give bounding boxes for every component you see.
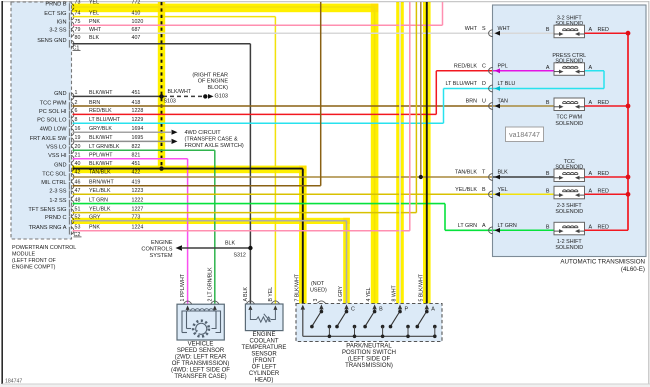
svg-text:A: A — [589, 224, 593, 230]
wire TFT SENS SIG YEL/BLK 1227 to top edge — [73, 212, 417, 214]
junction S312 — [248, 246, 252, 250]
PNP switch B — [372, 304, 376, 309]
svg-text:79: 79 — [75, 27, 81, 33]
svg-text:LT GRN: LT GRN — [458, 223, 477, 229]
arrow FRT AXLE SW — [172, 139, 178, 144]
svg-text:LT BLU/WHT: LT BLU/WHT — [89, 117, 121, 123]
svg-text:6 GRY: 6 GRY — [338, 285, 344, 301]
svg-text:POSITION SWITCH: POSITION SWITCH — [342, 350, 396, 356]
svg-text:B: B — [546, 171, 550, 177]
PRESS CTRL SOLENOID at y=70.8 — [554, 63, 585, 76]
top border — [2, 1, 649, 3]
svg-text:PPL: PPL — [498, 64, 508, 70]
svg-text:21: 21 — [75, 153, 81, 159]
svg-text:B: B — [546, 188, 550, 194]
wire 4WD LOW GRY/BLK 1694 stub — [73, 131, 172, 133]
svg-text:OF ENGINE: OF ENGINE — [198, 79, 229, 85]
red bus junction TCC PWM — [626, 104, 631, 109]
svg-text:1-2 SHIFT: 1-2 SHIFT — [557, 239, 583, 245]
svg-text:SYSTEM: SYSTEM — [149, 253, 172, 259]
svg-text:2: 2 — [75, 100, 78, 106]
wire 3-2 SS WHT 687 to transmission S — [73, 32, 494, 34]
VSS pickup coil symbol — [187, 311, 217, 329]
svg-text:RED: RED — [598, 100, 609, 106]
svg-text:LT BLU/WHT: LT BLU/WHT — [445, 81, 477, 87]
svg-text:418: 418 — [132, 100, 141, 106]
wire TCC SOL TAN/BLK 422 to transmission T — [73, 176, 494, 178]
svg-text:TRANSFER CASE): TRANSFER CASE) — [174, 374, 226, 380]
svg-text:TRANSMISSION): TRANSMISSION) — [345, 363, 393, 369]
svg-text:RED: RED — [598, 171, 609, 177]
wire SENS GND BLK 407 to S312 and ECT pin A — [73, 43, 251, 45]
svg-text:75: 75 — [75, 19, 81, 25]
1-2 SHIFT SOLENOID at y=230.3 — [554, 222, 585, 235]
wire 422 branch to top edge — [420, 2, 422, 177]
right border — [648, 1, 650, 387]
svg-text:SOLENOID: SOLENOID — [555, 209, 583, 215]
svg-text:D: D — [482, 81, 486, 87]
wire IGN PNK 1020 from top edge — [73, 24, 443, 26]
svg-text:PNK: PNK — [89, 225, 100, 231]
svg-text:B: B — [546, 100, 550, 106]
wire VSS LO LT GRN/BLK 822 to VSS pin2 — [73, 149, 215, 151]
svg-text:B: B — [482, 187, 486, 193]
PNP pin7 internal — [301, 305, 305, 310]
svg-text:1 PPL/WHT: 1 PPL/WHT — [180, 273, 186, 301]
svg-text:BLK: BLK — [225, 240, 235, 246]
highlight S103 dashed vertical — [158, 2, 165, 169]
highlight vertical pin8 WHT — [396, 2, 404, 304]
svg-text:PNK: PNK — [89, 19, 100, 25]
svg-text:GND: GND — [54, 91, 66, 97]
svg-text:A: A — [589, 171, 593, 177]
svg-text:GND: GND — [54, 162, 66, 168]
svg-text:FRT AXLE SW: FRT AXLE SW — [30, 136, 68, 142]
PNP bus wire — [303, 335, 437, 337]
svg-text:S103: S103 — [164, 99, 176, 105]
PNP switch C — [344, 304, 348, 309]
svg-text:LT GRN: LT GRN — [89, 197, 108, 203]
svg-text:BLK: BLK — [498, 170, 509, 176]
3-2 SHIFT SOLENOID at y=33.2 — [554, 25, 585, 38]
wire PC SOL HI RED/BLK 1228 to transmission C — [73, 113, 437, 115]
svg-text:PRND C: PRND C — [45, 215, 66, 221]
junction 451 to GND row40 — [159, 166, 163, 170]
svg-text:7 BLK/WHT: 7 BLK/WHT — [294, 273, 300, 301]
red feed bus — [627, 33, 629, 230]
svg-text:80: 80 — [75, 35, 81, 41]
wire PNP pin8 WHT from top edge — [399, 2, 401, 304]
svg-text:3-2 SS: 3-2 SS — [49, 28, 66, 34]
svg-text:BRN/WHT: BRN/WHT — [89, 180, 114, 186]
highlight vertical pin6 GRY — [343, 218, 350, 304]
svg-text:1: 1 — [75, 90, 78, 96]
svg-text:MODULE: MODULE — [12, 252, 35, 258]
svg-text:SOLENOID: SOLENOID — [555, 245, 583, 251]
svg-text:1223: 1223 — [132, 188, 144, 194]
svg-text:BLK/WHT: BLK/WHT — [168, 89, 192, 95]
svg-text:(TRANSFER CASE &: (TRANSFER CASE & — [185, 137, 239, 143]
red bus junction 3-2 corner — [626, 31, 631, 36]
svg-text:TAN/BLK: TAN/BLK — [455, 170, 477, 176]
svg-text:A: A — [589, 27, 593, 33]
svg-text:SENSOR: SENSOR — [251, 352, 277, 358]
svg-text:VSS LO: VSS LO — [46, 145, 67, 151]
highlight PRND B row0 — [72, 4, 378, 13]
svg-text:LT BLU: LT BLU — [498, 81, 516, 87]
engine coolant temp sensor box — [245, 304, 283, 331]
svg-text:C: C — [482, 64, 486, 70]
svg-text:8 WHT: 8 WHT — [392, 285, 398, 302]
svg-text:6: 6 — [75, 108, 78, 114]
svg-text:51: 51 — [75, 206, 81, 212]
svg-text:(LEFT SIDE OF: (LEFT SIDE OF — [348, 357, 391, 363]
wire BLK S312 branch — [181, 247, 250, 249]
automatic transmission panel — [493, 5, 647, 257]
svg-text:53: 53 — [75, 225, 81, 231]
svg-text:1695: 1695 — [132, 135, 144, 141]
svg-text:184747: 184747 — [5, 379, 22, 385]
svg-text:1694: 1694 — [132, 126, 144, 132]
svg-text:S312: S312 — [234, 253, 246, 259]
svg-text:(4WD: LEFT SIDE OF: (4WD: LEFT SIDE OF — [171, 368, 230, 374]
svg-text:B YEL: B YEL — [268, 287, 274, 302]
svg-text:(4L60-E): (4L60-E) — [621, 266, 645, 273]
svg-text:WHT: WHT — [498, 26, 511, 32]
svg-text:2-3 SHIFT: 2-3 SHIFT — [557, 203, 583, 209]
ground arrow to G103 — [208, 94, 214, 99]
PNP switch A — [425, 304, 429, 309]
svg-text:(RIGHT REAR: (RIGHT REAR — [192, 72, 228, 78]
wire MIL CTRL BRN/WHT 419 to top edge — [73, 185, 321, 187]
svg-text:19: 19 — [75, 135, 81, 141]
svg-text:TCC SOL: TCC SOL — [42, 171, 66, 177]
svg-text:A: A — [589, 100, 593, 106]
svg-text:B: B — [546, 224, 550, 230]
ECT connector arcs — [246, 301, 254, 304]
svg-text:687: 687 — [132, 27, 141, 33]
svg-text:CYLINDER: CYLINDER — [249, 371, 280, 377]
svg-text:WHT: WHT — [465, 26, 478, 32]
left border — [1, 1, 3, 384]
svg-text:AUTOMATIC TRANSMISSION: AUTOMATIC TRANSMISSION — [560, 258, 645, 265]
svg-text:1229: 1229 — [132, 117, 144, 123]
svg-text:BRN: BRN — [89, 100, 100, 106]
svg-text:20: 20 — [75, 144, 81, 150]
svg-text:G103: G103 — [215, 94, 228, 100]
svg-text:16: 16 — [75, 126, 81, 132]
svg-text:MIL CTRL: MIL CTRL — [41, 180, 66, 186]
svg-text:TEMPERATURE: TEMPERATURE — [242, 345, 287, 351]
svg-text:PC SOL HI: PC SOL HI — [39, 109, 67, 115]
svg-text:SPEED SENSOR: SPEED SENSOR — [177, 348, 225, 354]
svg-text:OF TRANSMISSION): OF TRANSMISSION) — [172, 361, 230, 367]
svg-text:48: 48 — [75, 197, 81, 203]
svg-text:BLK/WHT: BLK/WHT — [89, 135, 113, 141]
svg-text:407: 407 — [132, 35, 141, 41]
TCC SOLENOID at y=177 — [554, 169, 585, 182]
svg-text:3: 3 — [313, 299, 319, 302]
svg-text:1222: 1222 — [132, 197, 144, 203]
svg-text:1020: 1020 — [132, 19, 144, 25]
svg-text:BLK/WHT: BLK/WHT — [89, 90, 113, 96]
svg-text:TRANS RNG A: TRANS RNG A — [29, 225, 67, 231]
svg-text:IGN: IGN — [57, 20, 67, 26]
park/neutral position switch box — [296, 304, 442, 342]
svg-text:VSS HI: VSS HI — [48, 153, 67, 159]
arrow 4WD LOW — [172, 130, 178, 135]
svg-text:419: 419 — [132, 180, 141, 186]
wire PNP pin5 BLK/WHT from top edge — [426, 2, 428, 304]
svg-text:451: 451 — [132, 90, 141, 96]
svg-text:ENGINE: ENGINE — [252, 332, 275, 338]
PCM connector panel — [11, 2, 72, 239]
TCC PWM SOLENOID at y=106.0 — [554, 98, 585, 111]
svg-text:SOLENOID: SOLENOID — [555, 165, 583, 171]
wire ECT SIG YEL 410 to ECT sensor pin B — [73, 16, 276, 18]
VSS connector arcs — [184, 301, 192, 304]
red bus junction TCC — [626, 175, 631, 180]
PNP switch pin3 (not used) — [319, 304, 323, 309]
highlight vertical pin4 YEL — [371, 4, 379, 304]
svg-text:SOLENOID: SOLENOID — [555, 121, 583, 127]
svg-text:SOLENOID: SOLENOID — [555, 59, 583, 65]
svg-text:WHT: WHT — [89, 27, 102, 33]
svg-text:va184747: va184747 — [509, 132, 540, 139]
svg-text:SENS GND: SENS GND — [37, 38, 66, 44]
wire LT BLU return loop — [493, 88, 604, 90]
wire WHT to 3-2 solenoid — [493, 32, 554, 34]
svg-text:1-2 SS: 1-2 SS — [49, 198, 66, 204]
svg-text:RED/BLK: RED/BLK — [454, 64, 477, 70]
ECT thermistor symbol — [250, 310, 256, 320]
bottom border — [0, 384, 650, 387]
svg-text:A BLK: A BLK — [243, 287, 249, 302]
svg-text:2-3 SS: 2-3 SS — [49, 189, 66, 195]
svg-text:GRY/BLK: GRY/BLK — [89, 126, 112, 132]
svg-text:BLOCK): BLOCK) — [208, 85, 229, 91]
svg-text:CONTROLS: CONTROLS — [141, 246, 172, 252]
wire 2-3 SS YEL/BLK 1223 to transmission B — [73, 193, 494, 195]
svg-text:1228: 1228 — [132, 108, 144, 114]
svg-text:TCC PWM: TCC PWM — [40, 100, 67, 106]
wire GND BLK/WHT 451 row40 to PNP pin7 — [73, 168, 303, 170]
svg-text:RED: RED — [598, 188, 609, 194]
wire LT GRN to 1-2 solenoid — [493, 229, 554, 231]
svg-text:BRN: BRN — [466, 99, 477, 105]
wire PC SOL LO LT BLU/WHT 1229 to transmission D — [73, 122, 444, 124]
svg-text:P: P — [405, 306, 409, 312]
svg-text:ENGINE COMPT): ENGINE COMPT) — [12, 265, 56, 271]
svg-text:OF LEFT: OF LEFT — [252, 365, 277, 371]
svg-text:822: 822 — [132, 144, 141, 150]
svg-text:LT GRN/BLK: LT GRN/BLK — [89, 144, 120, 150]
junction 422 branch — [419, 175, 423, 179]
wire TAN to TCC PWM solenoid — [493, 105, 554, 107]
svg-text:4WD LOW: 4WD LOW — [40, 127, 67, 133]
highlight GND row40 — [72, 166, 306, 174]
svg-text:A: A — [589, 65, 593, 71]
svg-text:2 LT GRN/BLK: 2 LT GRN/BLK — [207, 267, 213, 302]
svg-text:POWERTRAIN CONTROL: POWERTRAIN CONTROL — [12, 245, 76, 251]
svg-text:HEAD): HEAD) — [255, 378, 274, 384]
svg-text:A: A — [482, 223, 486, 229]
svg-text:4 YEL: 4 YEL — [366, 287, 372, 301]
svg-text:ENGINE: ENGINE — [151, 240, 173, 246]
wire BLK to TCC solenoid — [493, 176, 554, 178]
svg-text:8: 8 — [75, 117, 78, 123]
svg-text:821: 821 — [132, 153, 141, 159]
svg-text:TCC PWM: TCC PWM — [556, 115, 582, 121]
ground point G103 dot — [203, 94, 207, 98]
wire PPL to press ctrl solenoid — [493, 70, 554, 72]
svg-text:B: B — [379, 306, 383, 312]
svg-text:RED/BLK: RED/BLK — [89, 108, 112, 114]
svg-text:(2WD: LEFT REAR: (2WD: LEFT REAR — [175, 355, 227, 361]
svg-text:YEL/BLK: YEL/BLK — [89, 206, 111, 212]
svg-text:SOLENOID: SOLENOID — [555, 21, 583, 27]
svg-text:BLK: BLK — [89, 35, 99, 41]
svg-text:RED: RED — [598, 224, 609, 230]
svg-text:PC SOL LO: PC SOL LO — [37, 118, 67, 124]
2-3 SHIFT SOLENOID at y=194.3 — [554, 186, 585, 199]
svg-text:YEL/BLK: YEL/BLK — [455, 187, 477, 193]
vehicle speed sensor box — [177, 304, 224, 340]
wire FRT AXLE SW BLK/WHT 1695 stub — [73, 140, 172, 142]
svg-text:46: 46 — [75, 180, 81, 186]
svg-text:C: C — [351, 306, 355, 312]
svg-text:TFT SENS SIG: TFT SENS SIG — [28, 207, 66, 213]
svg-text:47: 47 — [75, 188, 81, 194]
svg-text:VEHICLE: VEHICLE — [188, 342, 214, 348]
svg-text:1227: 1227 — [132, 206, 144, 212]
red bus junction 2-3 — [626, 192, 631, 197]
svg-text:5 BLK/WHT: 5 BLK/WHT — [418, 273, 424, 301]
svg-text:U: U — [482, 99, 486, 105]
svg-text:COOLANT: COOLANT — [249, 339, 278, 345]
wire 1-2 SS LT GRN 1222 to transmission A — [73, 203, 446, 205]
wire PRND B YEL 772 to PNP pin4 — [73, 6, 375, 8]
svg-text:PARK/NEUTRAL: PARK/NEUTRAL — [346, 344, 392, 350]
wire 451 dashed to ground G103 — [163, 95, 203, 97]
highlight vertical pin5 BLK/WHT — [423, 2, 431, 304]
wire VSS HI PPL/WHT 821 to VSS pin1 — [73, 158, 188, 160]
svg-text:FRONT AXLE SWITCH): FRONT AXLE SWITCH) — [185, 143, 244, 149]
wire TRANS RNG A PNK 1224 to top edge — [73, 230, 410, 232]
svg-text:PRND B: PRND B — [45, 1, 66, 7]
VSS gear symbol — [193, 321, 209, 337]
wire 451 dashed splice S103 vertical (highlighted) — [161, 2, 163, 169]
svg-text:A: A — [589, 188, 593, 194]
svg-text:A: A — [431, 306, 435, 312]
ECT pin arrows — [248, 305, 252, 310]
svg-text:(FRONT: (FRONT — [253, 358, 276, 364]
highlight PRND C row52 — [72, 218, 350, 224]
svg-text:YEL: YEL — [498, 187, 508, 193]
svg-text:USED): USED) — [310, 288, 327, 294]
watermark va184747 — [506, 127, 544, 142]
svg-text:(NOT: (NOT — [311, 281, 325, 287]
svg-text:ECT SIG: ECT SIG — [44, 11, 66, 17]
wire GND 451 row1 solid segment — [73, 95, 164, 97]
svg-text:S: S — [482, 26, 486, 32]
highlight vertical pin7 BLK/WHT — [299, 166, 307, 304]
svg-text:RED: RED — [598, 27, 609, 33]
svg-text:1224: 1224 — [132, 225, 144, 231]
svg-text:PPL/WHT: PPL/WHT — [89, 153, 113, 159]
wire PRND C GRY 773 to PNP pin6 — [73, 220, 347, 222]
VSS pin arrows — [186, 305, 190, 310]
svg-text:B: B — [546, 27, 550, 33]
arrow to engine controls — [176, 245, 183, 250]
svg-text:(LEFT FRONT OF: (LEFT FRONT OF — [12, 258, 57, 264]
PNP switch P — [398, 304, 402, 309]
junction S103 — [159, 94, 163, 98]
svg-text:LT GRN: LT GRN — [498, 223, 517, 229]
wire YEL to 2-3 solenoid — [493, 193, 554, 195]
svg-text:4WD CIRCUIT: 4WD CIRCUIT — [185, 130, 222, 136]
svg-text:YEL/BLK: YEL/BLK — [89, 188, 111, 194]
svg-text:TAN: TAN — [498, 99, 508, 105]
wire TCC PWM BRN 418 to transmission U — [73, 105, 494, 107]
svg-text:A: A — [546, 65, 550, 71]
